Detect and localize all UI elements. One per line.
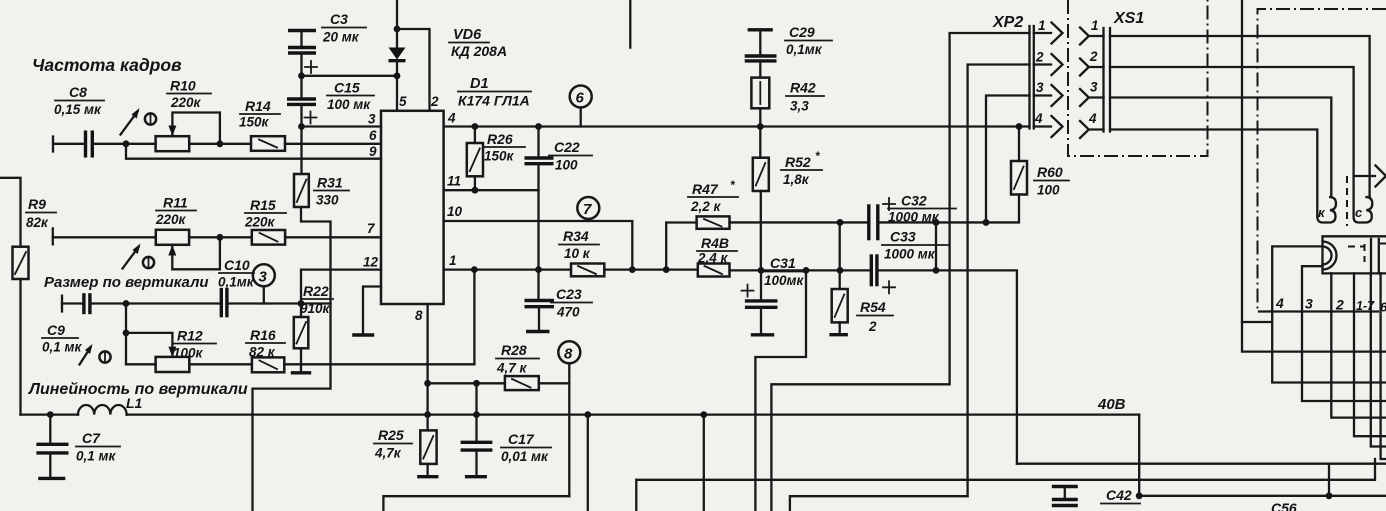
potentiometer R12: [126, 328, 216, 373]
svg-text:R15: R15: [250, 197, 276, 213]
svg-text:3: 3: [1036, 80, 1044, 95]
wire: XS1 pin 3 to socket "к" contact: [1110, 98, 1331, 198]
svg-text:4,7 к: 4,7 к: [496, 361, 528, 376]
wire: pin 1 row: [444, 268, 571, 270]
svg-text:1-7: 1-7: [1356, 299, 1375, 313]
wire: bottom module rail left segment: [383, 496, 569, 511]
svg-text:C29: C29: [789, 24, 815, 40]
svg-text:220к: 220к: [244, 215, 276, 230]
wire: bypass to pin 2: [397, 29, 430, 111]
svg-text:Размер по вертикали: Размер по вертикали: [44, 274, 209, 291]
svg-text:C17: C17: [508, 431, 535, 447]
svg-text:10: 10: [447, 204, 463, 219]
svg-text:R60: R60: [1037, 164, 1063, 180]
svg-text:5: 5: [399, 94, 407, 109]
svg-text:3,3: 3,3: [790, 99, 809, 114]
svg-text:VD6: VD6: [453, 27, 482, 43]
svg-text:C8: C8: [69, 84, 87, 100]
wire: R16 to pin 1 drop leg: [284, 363, 474, 365]
connector XS1: [1080, 10, 1144, 138]
svg-text:2: 2: [1089, 49, 1098, 64]
resistor R31: [294, 174, 349, 208]
svg-text:100 мк: 100 мк: [327, 97, 371, 112]
svg-text:C10: C10: [224, 257, 250, 273]
wire: R34 to R47/R48 bracket: [604, 268, 698, 270]
wire: row to C9: [62, 302, 84, 304]
wire: heater pin bottom: [1302, 266, 1386, 401]
socket contact с: [1354, 176, 1373, 223]
svg-text:1: 1: [449, 253, 457, 268]
node 6 circle: [570, 86, 592, 127]
wire: R10 to R14: [189, 143, 251, 145]
svg-text:0,15 мк: 0,15 мк: [54, 102, 102, 117]
svg-text:с: с: [1355, 205, 1363, 220]
connector XP2: [992, 14, 1063, 137]
svg-text:XS1: XS1: [1113, 10, 1144, 27]
svg-text:220к: 220к: [155, 212, 187, 227]
wire: branch to edge connector pin: [1354, 166, 1386, 187]
wire: top edge stub: [629, 0, 631, 48]
svg-text:1: 1: [1038, 18, 1046, 33]
svg-text:910к: 910к: [300, 301, 331, 316]
svg-text:1000 мк: 1000 мк: [884, 247, 936, 262]
resistor R54: [829, 222, 893, 334]
svg-text:100: 100: [555, 158, 578, 173]
svg-text:C42: C42: [1106, 487, 1132, 503]
wire: R47 row continuing east: [730, 221, 869, 223]
node 7 circle: [577, 197, 599, 221]
svg-text:470: 470: [556, 305, 580, 320]
dash-dot kinescope boundary: [1258, 9, 1386, 312]
wire: frequency row into C8: [53, 143, 86, 145]
wire: riser from C42 row to feed row: [1328, 464, 1330, 496]
pin number labels of D1: [363, 94, 463, 323]
svg-text:Частота кадров: Частота кадров: [32, 55, 182, 75]
svg-text:82к: 82к: [26, 215, 49, 230]
svg-text:3: 3: [368, 112, 376, 127]
wire: 40V drop: [1138, 415, 1140, 496]
svg-text:2: 2: [1035, 50, 1044, 65]
capacitor C42: [1052, 487, 1140, 506]
svg-text:R12: R12: [177, 328, 203, 344]
wire: C3 to C15: [300, 53, 302, 99]
resistor R42: [751, 61, 824, 130]
wire: pin 10 row with corner to R34 row: [444, 221, 633, 270]
svg-text:40В: 40В: [1097, 396, 1126, 413]
svg-text:R22: R22: [303, 283, 329, 299]
svg-text:C7: C7: [82, 430, 101, 446]
resistor R28: [496, 342, 539, 390]
pin number labels of kinescope socket: [1275, 295, 1386, 315]
svg-text:XP2: XP2: [992, 14, 1023, 31]
wire: taps descending from main rail: [587, 415, 589, 511]
wire: R28 to node 8 riser: [539, 382, 570, 384]
capacitor C7: [36, 411, 120, 478]
svg-text:4: 4: [1034, 111, 1043, 126]
wire: C32 row continuing east to R60: [878, 195, 1019, 223]
svg-text:1: 1: [1091, 18, 1099, 33]
svg-text:20 мк: 20 мк: [322, 30, 360, 45]
wire: bottom module rail right segment: [790, 496, 968, 511]
socket pins terminal strip line: [1259, 310, 1378, 312]
svg-text:0,1 мк: 0,1 мк: [76, 449, 117, 464]
wire: branch down from R48 row to bottom: [755, 270, 806, 511]
resistor R15: [244, 197, 286, 245]
wire: left edge feed to R9 column: [0, 178, 21, 247]
dashed glass boundary between к and с: [1346, 176, 1348, 226]
svg-text:4,7к: 4,7к: [374, 446, 402, 461]
svg-text:R16: R16: [250, 327, 276, 343]
wire: short link row left of staircase: [1242, 321, 1271, 323]
wire: R28 row: [428, 382, 505, 384]
svg-text:9: 9: [369, 144, 377, 159]
wire: R9 bottom to L1 row corner: [19, 279, 21, 415]
wire: socket pin 2 staircase: [1331, 273, 1386, 417]
resistor R48: [697, 235, 737, 277]
wire: main top rail (pin 4 to XP2): [444, 125, 1030, 127]
node: input terminal tick of frequency row: [52, 137, 54, 152]
svg-text:0,01 мк: 0,01 мк: [501, 449, 549, 464]
IC D1 body: [381, 76, 531, 304]
svg-text:82 к: 82 к: [249, 345, 276, 360]
svg-text:R26: R26: [487, 131, 513, 147]
resistor R22: [294, 283, 333, 348]
svg-text:C9: C9: [47, 322, 65, 338]
svg-text:0,1 мк: 0,1 мк: [42, 340, 83, 355]
resistor R16: [246, 327, 285, 372]
wire: bracket for R47: [666, 223, 696, 270]
svg-text:150к: 150к: [484, 149, 515, 164]
svg-text:L1: L1: [126, 395, 143, 411]
svg-text:6: 6: [576, 90, 585, 107]
wire: pin 13 ground stub: [363, 287, 381, 336]
wire: pin 12 row: [301, 270, 381, 304]
wire: drop to pin 9 return row: [126, 144, 381, 159]
wire: pin 1 drop to linearity row: [473, 270, 475, 365]
svg-text:C33: C33: [890, 229, 916, 245]
wire: XS1 pin 4 to socket pocket "к": [1110, 130, 1317, 218]
resistor R14: [239, 98, 285, 151]
svg-text:11: 11: [447, 174, 461, 189]
capacitor C10: [218, 257, 255, 317]
wire: pin 8 lead down to bottom rail: [426, 304, 428, 415]
potentiometer R10: [156, 78, 224, 152]
svg-text:R31: R31: [317, 175, 343, 191]
wire: pin 11 row: [444, 189, 539, 191]
svg-text:3: 3: [1090, 80, 1098, 95]
wire: main bottom rail: [21, 413, 1140, 415]
capacitor C22: [525, 123, 593, 172]
svg-text:C31: C31: [770, 255, 796, 271]
svg-text:2: 2: [868, 319, 877, 334]
svg-text:R52: R52: [785, 154, 811, 170]
node: input terminal tick of R11 row: [52, 228, 54, 244]
capacitor C8: [54, 84, 104, 158]
ground bar of pin 13: [352, 333, 374, 336]
wire: R48 row continuing east: [730, 269, 872, 271]
svg-text:R4В: R4В: [701, 235, 729, 251]
svg-text:2,4 к: 2,4 к: [697, 251, 729, 266]
svg-text:8: 8: [415, 308, 423, 323]
svg-text:R25: R25: [378, 427, 404, 443]
svg-text:220к: 220к: [170, 95, 202, 110]
wire: pin 3 row: [302, 125, 382, 127]
dash-dot enclosure of XS1: [1068, 0, 1208, 156]
svg-text:3: 3: [1305, 296, 1313, 312]
wire: C42 row: [1139, 495, 1386, 497]
ground bar of R22: [291, 371, 311, 374]
wire: drop from size row to R12 left terminal: [125, 304, 127, 365]
wire: R14 to IC pin 6: [285, 143, 381, 145]
wire: XS1 pin 2 to socket pocket "с": [1110, 67, 1354, 176]
wire: XP2 pin 3 feed with drop to C32 row: [986, 96, 1030, 223]
svg-text:R54: R54: [860, 299, 886, 315]
svg-text:R47: R47: [692, 181, 719, 197]
capacitor C17: [461, 411, 551, 477]
capacitor C31 (electrolytic): [742, 255, 807, 335]
svg-text:0,1мк: 0,1мк: [218, 275, 255, 290]
wire: R12 left terminal: [126, 363, 156, 365]
svg-text:C15: C15: [334, 80, 360, 96]
wire: heater pin top: [1272, 246, 1386, 382]
svg-text:6: 6: [369, 128, 377, 143]
svg-text:КД 208А: КД 208А: [451, 43, 507, 59]
svg-text:4: 4: [1088, 111, 1097, 126]
inductor L1: [78, 395, 143, 415]
resistor R34: [559, 228, 604, 276]
capacitor C29: [745, 24, 832, 61]
svg-text:К174 ГЛ1А: К174 ГЛ1А: [458, 93, 530, 109]
svg-text:C3: C3: [330, 11, 348, 27]
wire: staircase outer: [1381, 273, 1386, 459]
svg-text:R28: R28: [501, 342, 527, 358]
resistor R52: [753, 127, 822, 271]
svg-text:R10: R10: [170, 78, 196, 94]
svg-text:D1: D1: [470, 76, 489, 92]
svg-text:R9: R9: [28, 196, 46, 212]
wire: R11 to R15: [189, 236, 252, 238]
wire: R12 to R16: [189, 363, 252, 365]
node 3 circle: [253, 264, 275, 303]
adjuster arrow of R12: [80, 344, 111, 365]
svg-text:R34: R34: [563, 228, 589, 244]
svg-text:7: 7: [583, 201, 592, 218]
capacitor C9: [42, 293, 90, 354]
wire: corner down from lower feed: [635, 480, 637, 511]
resistor R25: [374, 415, 438, 477]
svg-text:2,2 к: 2,2 к: [690, 199, 722, 214]
svg-text:C23: C23: [556, 286, 582, 302]
wire: C22 bottom down through rows to C23: [537, 164, 539, 301]
wire: C33 row continuing east with corner down: [877, 270, 1017, 463]
diode VD6: [389, 0, 508, 111]
wire: staircase from grid line: [1371, 273, 1386, 446]
svg-text:100: 100: [1037, 183, 1060, 198]
wire: lower feed row from bottom area: [636, 459, 1375, 480]
node 8 circle: [558, 341, 580, 496]
wire: XS1 pin 1 to socket "с" contact: [1110, 36, 1370, 197]
svg-text:12: 12: [363, 255, 379, 270]
wire: C9 to C10 with junction to R12: [90, 302, 221, 304]
wire: C10 to end of size row: [227, 302, 331, 304]
capacitor C15 (electrolytic): [287, 80, 374, 124]
socket contact к: [1317, 197, 1336, 223]
resistor R26: [467, 123, 525, 194]
wire: C3 bottom junction across to diode line: [302, 75, 398, 77]
svg-text:10 к: 10 к: [564, 246, 591, 261]
capacitor C23: [525, 286, 593, 332]
wire: XP2 pin 1 feed with long drop: [771, 33, 1029, 511]
wire: socket pin 1-7 staircase: [1354, 273, 1386, 436]
svg-text:R14: R14: [245, 98, 271, 114]
wire: vertical feed at far right top: [1242, 0, 1386, 352]
svg-text:4: 4: [1275, 295, 1284, 311]
wire: C15 down to pin 3 row and R31: [300, 104, 302, 174]
kinescope base box: [1323, 236, 1386, 273]
capacitor C33 (electrolytic, horizontal): [871, 229, 948, 294]
svg-text:3: 3: [259, 269, 268, 286]
resistor R47: [688, 178, 738, 229]
svg-text:2: 2: [1335, 297, 1344, 313]
resistor R9: [13, 196, 57, 279]
capacitor C3 (electrolytic): [288, 11, 366, 73]
svg-text:C32: C32: [901, 193, 927, 209]
adjuster arrow of R10: [121, 108, 157, 135]
wire: link between C32 row and C33 row: [935, 222, 937, 270]
svg-text:1,8к: 1,8к: [783, 172, 810, 187]
capacitor C32 (electrolytic, horizontal): [869, 193, 956, 241]
svg-text:4: 4: [447, 111, 456, 126]
svg-text:R11: R11: [163, 195, 188, 211]
wire: R15 to IC pin 7: [285, 236, 381, 238]
potentiometer R11: [155, 195, 223, 270]
wire: row to R11: [53, 236, 156, 238]
resistor R60: [1011, 123, 1069, 197]
svg-text:330: 330: [316, 193, 339, 208]
svg-text:150к: 150к: [239, 115, 270, 130]
wire: feed row to staircase: [1017, 463, 1386, 465]
svg-text:0,1мк: 0,1мк: [786, 42, 823, 57]
adjuster arrow of R11: [123, 244, 155, 269]
svg-text:C22: C22: [554, 139, 580, 155]
svg-text:R42: R42: [790, 80, 816, 96]
wire: R22 bottom lead to ground: [300, 348, 302, 373]
svg-text:C56: C56: [1271, 500, 1297, 511]
svg-text:2: 2: [430, 94, 439, 109]
svg-text:100к: 100к: [173, 346, 204, 361]
node: input terminal tick of size row: [61, 296, 63, 312]
wire: XP2 pin 2 feed with long drop: [968, 65, 1030, 497]
wire: pin 12 jog from R31 down to linearity area: [253, 207, 331, 511]
svg-text:8: 8: [564, 346, 573, 363]
wire: C8 to R10 with split junction: [92, 143, 155, 145]
svg-text:100мк: 100мк: [764, 273, 805, 288]
